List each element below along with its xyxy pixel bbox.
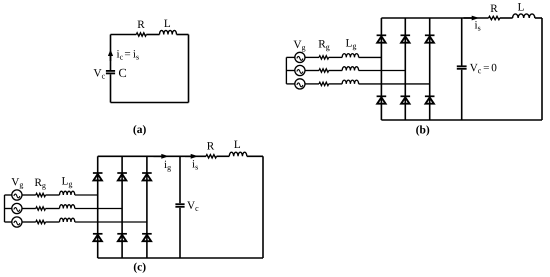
wire a right side	[188, 35, 190, 103]
wire c source stub phase 3	[5, 221, 12, 223]
current arrow is (c)	[185, 154, 198, 159]
inductor Lg phase 2 (c)	[60, 205, 75, 209]
wire b source stub phase 3	[286, 83, 294, 85]
label is (c)	[192, 160, 198, 170]
wire a between R and L	[146, 34, 159, 36]
current arrow is (b)	[464, 16, 480, 21]
wire c phase 2 to leg 2	[75, 208, 122, 210]
resistor R (a)	[136, 33, 146, 36]
inductor Lg phase 3 (c)	[60, 218, 75, 222]
wire b phase 2 to leg 2	[359, 70, 406, 72]
resistor Rg phase 3 (b)	[319, 82, 329, 85]
label Rg (c)	[35, 179, 46, 190]
resistor Rg phase 3 (c)	[36, 220, 46, 223]
inductor Lg phase 2 (b)	[342, 67, 358, 71]
leg 3 (c)	[146, 156, 148, 258]
wire c phase 2 Rg to Lg	[46, 208, 60, 210]
wire a bottom	[111, 102, 189, 104]
label L (b)	[518, 3, 524, 10]
caption (c)	[134, 263, 146, 273]
label C value (a)	[119, 69, 126, 77]
label R (a)	[138, 21, 145, 28]
wire a left lower	[110, 74, 112, 102]
wire c top-right	[247, 155, 263, 157]
wire b phase 1 to Rg	[305, 56, 319, 58]
label ig (c)	[164, 161, 171, 172]
diode D1 top (c)	[93, 173, 103, 180]
wire c phase 1 Rg to Lg	[46, 194, 60, 196]
wire c phase 2 to Rg	[22, 208, 36, 210]
wire b R to L	[500, 17, 513, 19]
capacitor Vc (c)	[175, 204, 184, 207]
label Vc (c)	[187, 201, 198, 210]
wire b phase 2 Rg to Lg	[329, 70, 343, 72]
wire b phase 3 to leg 3	[359, 83, 430, 85]
wire b source stub phase 1	[286, 56, 294, 58]
diode D1 top (b)	[377, 35, 387, 42]
diode D3 top (c)	[142, 173, 152, 180]
diode D6 bottom (b)	[425, 96, 435, 103]
leg 2 (c)	[121, 156, 123, 258]
ac source Vg phase 3 (c)	[12, 217, 22, 227]
wire c phase 1 to Rg	[22, 194, 36, 196]
wire b right side	[541, 18, 543, 120]
wire b phase 2 to Rg	[305, 70, 319, 72]
label Vc (a)	[94, 69, 105, 78]
diode D4 bottom (c)	[93, 234, 103, 241]
wire b phase 3 Rg to Lg	[329, 83, 343, 85]
current arrow ig (c)	[154, 154, 169, 159]
resistor Rg phase 1 (b)	[319, 56, 329, 59]
neutral wire (b)	[285, 57, 287, 84]
wire b top bus	[381, 17, 488, 19]
caption (a)	[133, 125, 145, 135]
label Vg (b)	[294, 41, 306, 52]
wire c phase 3 Rg to Lg	[46, 221, 60, 223]
capacitor Vc (b)	[457, 66, 467, 69]
diode D3 top (b)	[425, 35, 435, 42]
wire a left upper	[110, 35, 112, 71]
capacitor C (a)	[106, 71, 115, 74]
label R (b)	[491, 5, 498, 12]
inductor L (a)	[160, 30, 177, 34]
ac source Vg phase 1 (c)	[12, 190, 22, 200]
wire c phase 3 to leg 3	[75, 221, 147, 223]
diode D6 bottom (c)	[142, 234, 152, 241]
leg 1 (b)	[380, 18, 382, 120]
label ic = is (a)	[117, 50, 139, 60]
wire b top-right	[535, 17, 542, 19]
wire b cap branch upper	[461, 18, 463, 66]
inductor Lg phase 3 (b)	[342, 80, 358, 84]
inductor L (c)	[229, 152, 247, 156]
inductor Lg phase 1 (c)	[60, 191, 75, 195]
label Lg (b)	[346, 39, 356, 50]
resistor Rg phase 1 (c)	[36, 193, 46, 196]
wire a top-right	[177, 34, 189, 36]
caption (b)	[416, 125, 429, 135]
wire b phase 1 Rg to Lg	[329, 56, 343, 58]
label L (c)	[234, 141, 240, 148]
diode D2 top (b)	[401, 35, 411, 42]
current arrow ic (a)	[108, 50, 113, 62]
diode D5 bottom (b)	[401, 96, 411, 103]
wire c phase 1 to leg 1	[75, 194, 98, 196]
resistor Rg phase 2 (b)	[319, 69, 329, 72]
wire b cap branch lower	[461, 70, 463, 120]
wire c R to L	[217, 155, 230, 157]
label is (b)	[475, 21, 481, 31]
label Lg (c)	[62, 177, 72, 188]
label R (c)	[207, 142, 214, 149]
leg 2 (b)	[404, 18, 406, 120]
wire c phase 3 to Rg	[22, 221, 36, 223]
neutral wire (c)	[4, 195, 6, 222]
diode D4 bottom (b)	[377, 96, 387, 103]
leg 3 (b)	[429, 18, 431, 120]
wire c cap branch upper	[179, 156, 181, 203]
ac source Vg phase 2 (c)	[12, 203, 22, 213]
diode D2 top (c)	[117, 173, 127, 180]
label Rg (b)	[319, 40, 330, 51]
wire c cap branch lower	[179, 208, 181, 258]
label L (a)	[164, 20, 170, 27]
ac source Vg phase 3 (b)	[295, 79, 305, 89]
label Vg (c)	[11, 178, 23, 189]
diode D5 bottom (c)	[117, 234, 127, 241]
inductor L (b)	[513, 14, 535, 18]
wire c top bus	[98, 155, 206, 157]
wire b bottom bus	[381, 119, 542, 121]
ac source Vg phase 2 (b)	[295, 65, 305, 75]
resistor R (b)	[489, 16, 500, 19]
leg 1 (c)	[97, 156, 99, 258]
label Vc = 0 (b)	[470, 64, 497, 74]
wire c source stub phase 2	[5, 208, 12, 210]
wire b source stub phase 2	[286, 70, 294, 72]
wire c bottom bus	[98, 257, 263, 259]
wire a top-left	[111, 34, 137, 36]
inductor Lg phase 1 (b)	[342, 54, 358, 58]
wire b phase 3 to Rg	[305, 83, 319, 85]
wire b phase 1 to leg 1	[359, 56, 382, 58]
resistor R (c)	[206, 155, 217, 158]
resistor Rg phase 2 (c)	[36, 207, 46, 210]
wire c source stub phase 1	[5, 194, 12, 196]
wire c right side	[262, 156, 264, 258]
ac source Vg phase 1 (b)	[295, 52, 305, 62]
